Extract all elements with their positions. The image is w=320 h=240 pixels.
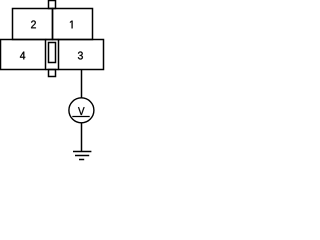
pin tab bottom xyxy=(49,70,56,77)
terminal box 3 xyxy=(59,40,104,70)
terminal box 2 xyxy=(13,9,53,40)
ground bar 2 xyxy=(75,155,89,157)
terminal box 1 xyxy=(53,9,93,40)
pin number 3 xyxy=(78,52,83,60)
fuse holder top edge xyxy=(46,39,59,41)
ground bar 3 xyxy=(79,159,84,161)
fuse body (inner rectangle) xyxy=(49,43,56,63)
wire from voltmeter to ground xyxy=(81,123,83,152)
voltmeter average-value underline xyxy=(72,116,89,118)
pin number 2 xyxy=(31,20,36,28)
voltmeter circle xyxy=(69,98,94,123)
wire from terminal 3 to voltmeter xyxy=(81,70,83,99)
voltmeter V label xyxy=(78,107,84,115)
pin tab top xyxy=(49,1,56,9)
ground bar 1 xyxy=(73,151,91,153)
pin number 4 xyxy=(20,52,25,60)
terminal box 4 xyxy=(1,40,46,70)
fuse holder bottom edge xyxy=(46,69,59,71)
pin number 1 xyxy=(70,21,73,29)
